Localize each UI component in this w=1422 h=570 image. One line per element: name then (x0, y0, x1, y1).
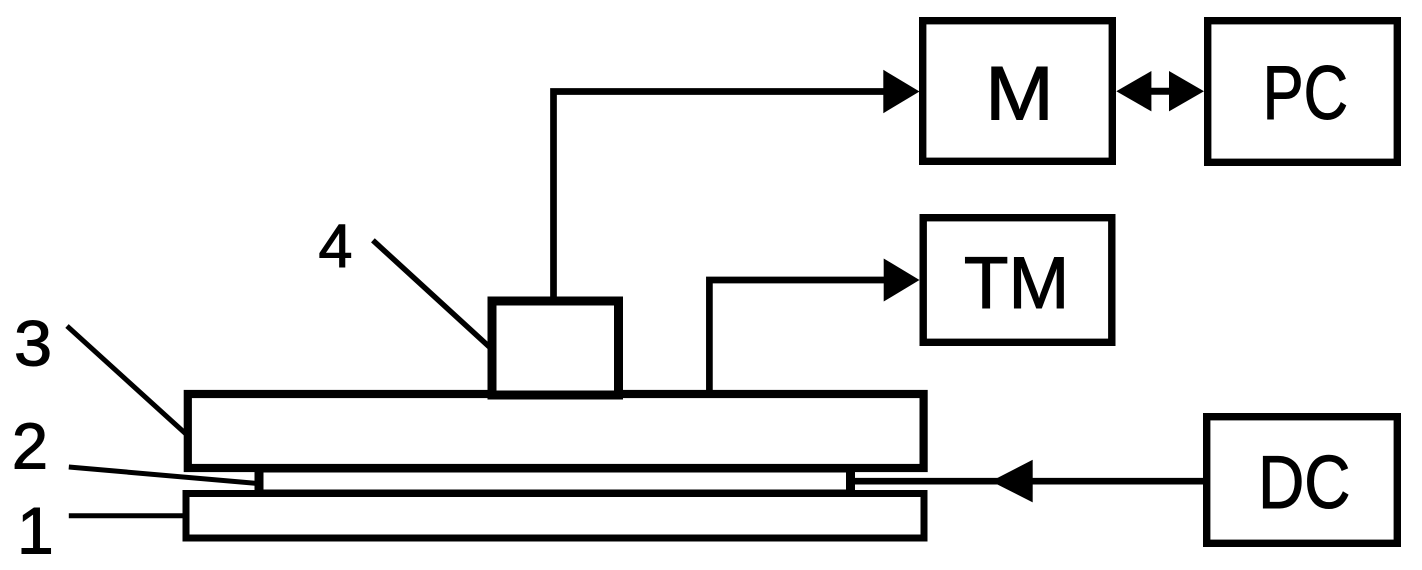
arrowhead on DC wire (pointing left) (991, 460, 1033, 503)
svg-text:M: M (985, 50, 1054, 135)
leader line 3 (67, 326, 186, 434)
block 4 (sensing block on top plate) (492, 301, 619, 395)
svg-text:PC: PC (1263, 50, 1348, 136)
leader line 4 (373, 240, 490, 347)
box TM (thermometer) (923, 218, 1112, 343)
wire DC to layer 2 (855, 478, 1204, 485)
plate 1 (bottom plate) (186, 494, 924, 539)
box PC (computer) (1208, 21, 1398, 163)
wire block 4 to box M (554, 92, 885, 300)
box DC (DC power supply) (1207, 417, 1398, 544)
double arrow between M and PC (1116, 71, 1204, 111)
layer 2 (thin middle layer rectangle) (259, 468, 851, 494)
leader line 1 (69, 513, 184, 518)
svg-text:4: 4 (319, 212, 353, 280)
wire plate 3 to box TM (709, 280, 884, 394)
svg-text:2: 2 (12, 409, 48, 482)
box M (measurement instrument) (923, 21, 1113, 162)
arrowhead into TM (884, 259, 920, 302)
plate 3 (top electrode plate) (188, 394, 924, 468)
leader line 2 (69, 467, 258, 484)
svg-text:DC: DC (1258, 440, 1350, 524)
arrowhead into M (883, 70, 919, 113)
svg-text:3: 3 (14, 309, 52, 380)
svg-text:TM: TM (964, 243, 1069, 324)
svg-text:1: 1 (17, 494, 54, 568)
